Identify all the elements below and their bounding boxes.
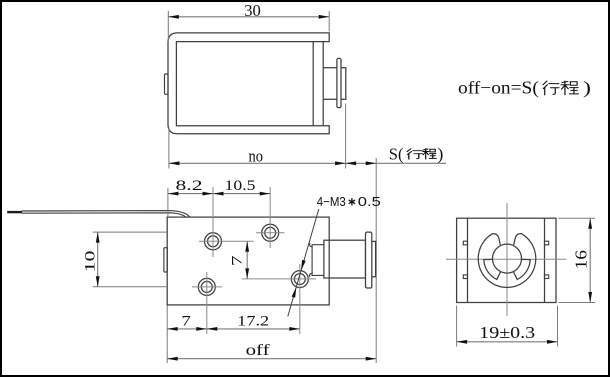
svg-text:30: 30 (244, 1, 261, 20)
side view: plunger shaft (323, 68, 337, 100)
dimension 16 (559, 218, 596, 302)
dimension 8.2 (168, 178, 213, 217)
dimension 7 (bottom) (167, 306, 207, 364)
dimension 10.5 (213, 178, 270, 196)
side view: plunger tip (341, 68, 346, 100)
mounting hole H4 bottom-right (291, 271, 308, 288)
label off-on=S(行程) (458, 78, 591, 98)
front view: plunger shaft (324, 240, 366, 278)
front view: plunger tip (372, 241, 376, 276)
svg-text:10.5: 10.5 (225, 178, 256, 194)
dimension 19±0.3 (457, 306, 558, 347)
end view: centerlines (446, 203, 567, 316)
dimension 7 (vertical, middle) (229, 241, 249, 279)
front view: plunger flange plate (366, 232, 372, 288)
dimension off (167, 342, 376, 361)
svg-text:off: off (246, 342, 271, 359)
end view: body rectangle (457, 218, 556, 302)
end view: wall tabs (463, 241, 548, 278)
svg-text:8.2: 8.2 (176, 178, 203, 194)
dimension no (169, 104, 346, 169)
side view: solenoid frame outline (168, 33, 329, 134)
front view: left terminal tab (164, 248, 167, 272)
thread callout 4-M3*0.5 (288, 194, 381, 316)
svg-text:16: 16 (572, 250, 591, 270)
dimension 10 (vertical, left) (83, 232, 168, 287)
svg-text:10: 10 (83, 251, 99, 273)
mounting hole H3 bottom-left (198, 278, 215, 295)
hole centerlines (192, 187, 316, 334)
dimension S(行程) stroke (346, 144, 446, 363)
end view: side wall inner lines (468, 218, 545, 302)
side view: plunger flange plate (337, 58, 341, 107)
lever arm (7, 211, 190, 218)
dimension 17.2 (207, 314, 300, 331)
svg-text:7: 7 (181, 314, 191, 330)
front view: body rectangle (167, 217, 329, 305)
svg-text:0.5: 0.5 (358, 194, 381, 209)
svg-text:7: 7 (229, 255, 245, 266)
front view: plunger guide collar (309, 243, 323, 277)
svg-text:19±0.3: 19±0.3 (479, 323, 535, 342)
svg-text:4−M3: 4−M3 (317, 194, 346, 209)
svg-text:): ) (583, 78, 591, 98)
svg-text:off−on=S(: off−on=S( (458, 78, 539, 98)
e-clip on plunger end (478, 234, 536, 288)
svg-text:17.2: 17.2 (237, 314, 269, 330)
svg-text:S(: S( (389, 144, 404, 163)
side view: left terminal tab (165, 74, 169, 94)
side view: coil right wall lines (313, 42, 323, 126)
mounting hole H2 top-right (262, 224, 279, 241)
svg-text:no: no (249, 146, 264, 165)
mounting hole H1 top-left (205, 233, 222, 250)
dimension 30 (168, 1, 329, 41)
svg-text:): ) (437, 144, 443, 163)
